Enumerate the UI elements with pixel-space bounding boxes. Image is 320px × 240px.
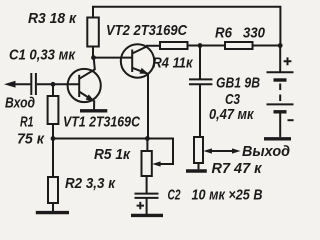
wire R4 to R6 [188,45,226,47]
resistor R4 [160,42,188,49]
battery GB1 [267,46,294,138]
ground VT1 emitter [80,109,107,112]
capacitor C1 [31,73,36,95]
svg-text:Выход: Выход [242,143,290,160]
svg-text:75 к: 75 к [17,131,45,148]
svg-text:VT1 2Т3169С: VT1 2Т3169С [63,114,141,131]
svg-text:С2: С2 [168,187,181,204]
transistor VT1 [68,58,101,111]
svg-text:10 мк ×25 В: 10 мк ×25 В [192,187,263,204]
svg-text:GB1 9В: GB1 9В [216,75,260,92]
svg-text:R4 11к: R4 11к [153,55,194,72]
ground R2 [36,211,69,214]
resistor R7 potentiometer [194,137,203,169]
resistor R5 potentiometer [142,139,174,177]
ground battery [264,137,291,140]
resistor R1 [48,84,59,138]
svg-text:С1 0,33 мк: С1 0,33 мк [9,47,76,64]
svg-text:Вход: Вход [5,95,35,112]
svg-text:R6: R6 [215,25,233,42]
capacitor C2 [135,176,159,214]
svg-text:330: 330 [243,25,266,42]
svg-text:0,47 мк: 0,47 мк [209,106,255,123]
wiper output arrow Выход [203,148,240,153]
node junction R4/R6/C3 [198,43,203,48]
node junction C1/R1/VT1 base [51,82,56,87]
wire feedback R1-R2 node to VT2 emitter node [53,138,147,140]
wire R6 to battery node [253,45,281,47]
wire node to VT2 base [94,57,133,59]
resistor R3 [87,7,99,58]
transistor VT2 [121,44,160,138]
node junction R6/rail/battery [278,43,283,48]
resistor R2 [48,139,58,212]
svg-text:R5 1к: R5 1к [94,146,131,163]
input arrow Вход [4,81,30,88]
wire C1 to VT1 base [37,83,79,85]
capacitor C3 [189,46,212,138]
resistor R6 [225,42,253,49]
ground C2 [131,214,163,217]
node junction R1/R2/feedback [51,136,56,141]
svg-text:R2 3,3 к: R2 3,3 к [65,175,116,192]
svg-text:R1: R1 [20,114,34,131]
svg-text:R3 18 к: R3 18 к [28,10,77,27]
wire top supply rail [92,7,280,46]
svg-text:R7 47 к: R7 47 к [212,160,263,177]
ground R7 [186,169,207,172]
node junction R3/VT1 collector/VT2 base [91,55,96,60]
svg-text:VT2 2Т3169С: VT2 2Т3169С [106,22,188,39]
node junction VT2 emitter/R5/feedback [145,136,150,141]
